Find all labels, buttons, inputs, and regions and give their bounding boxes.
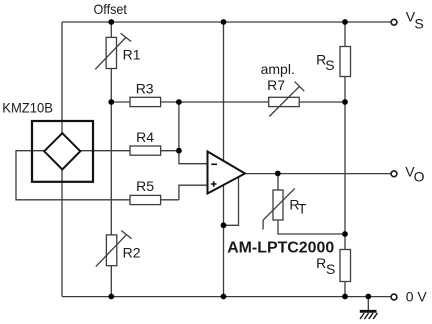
svg-text:KMZ10B: KMZ10B bbox=[2, 100, 53, 116]
svg-text:R1: R1 bbox=[123, 46, 141, 62]
svg-text:Offset: Offset bbox=[94, 1, 127, 17]
svg-text:R4: R4 bbox=[136, 129, 154, 145]
svg-text:S: S bbox=[414, 15, 423, 31]
svg-text:S: S bbox=[325, 57, 334, 73]
svg-text:AM-LPTC2000: AM-LPTC2000 bbox=[227, 240, 334, 257]
svg-text:R2: R2 bbox=[123, 244, 141, 260]
svg-text:R7: R7 bbox=[267, 77, 285, 93]
svg-text:R5: R5 bbox=[136, 178, 154, 194]
svg-text:R3: R3 bbox=[136, 80, 154, 96]
svg-text:O: O bbox=[414, 168, 425, 184]
svg-text:ampl.: ampl. bbox=[261, 61, 295, 77]
svg-text:T: T bbox=[298, 201, 307, 217]
svg-text:0 V: 0 V bbox=[406, 289, 428, 305]
svg-text:S: S bbox=[326, 261, 335, 277]
svg-text:R: R bbox=[316, 255, 326, 271]
